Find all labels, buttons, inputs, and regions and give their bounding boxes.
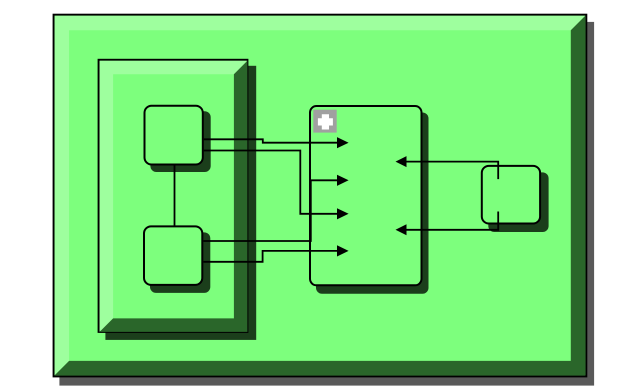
- wire A-B vertical connector: [174, 166, 176, 227]
- arrowhead into C (input 1): [337, 137, 349, 148]
- arrowhead into C (input 3): [337, 208, 349, 219]
- block C (central rounded rectangle): [310, 106, 422, 285]
- arrowhead into C (right input 2): [396, 224, 407, 235]
- arrowhead into C (input 2): [337, 175, 349, 186]
- wire A port2 to C arrow3: [204, 151, 338, 214]
- arrowhead into C (right input 1): [396, 156, 407, 167]
- wire D top to C right arrow1: [407, 162, 499, 180]
- block A (top-left rounded square): [145, 106, 203, 165]
- arrowhead into C (input 4): [337, 245, 349, 256]
- inner sub-panel light bevel (top-left): [100, 61, 248, 332]
- block B (bottom-left rounded square): [144, 226, 202, 285]
- inner sub-panel face: [99, 60, 248, 332]
- outer panel drop shadow: [59, 22, 594, 386]
- wire B port1 to C arrow2: [203, 180, 337, 241]
- wire D bottom to C right arrow2: [407, 212, 499, 230]
- wire B port2 to C arrow4: [203, 251, 337, 262]
- inner sub-panel dark bevel (bottom-right): [100, 61, 248, 332]
- block B shadow: [150, 232, 210, 293]
- block C shadow: [316, 113, 429, 294]
- block C expand icon (gray square with white plus): [313, 110, 336, 133]
- outer panel dark bevel (bottom-right): [55, 16, 586, 376]
- outer panel light bevel (top-left): [55, 16, 586, 376]
- wire A port1 to C arrow1: [204, 139, 338, 142]
- outer panel face: [54, 15, 587, 377]
- block D (right rounded square): [482, 166, 540, 224]
- block D shadow: [488, 172, 548, 232]
- inner sub-panel drop shadow: [105, 66, 256, 340]
- block A shadow: [150, 111, 210, 172]
